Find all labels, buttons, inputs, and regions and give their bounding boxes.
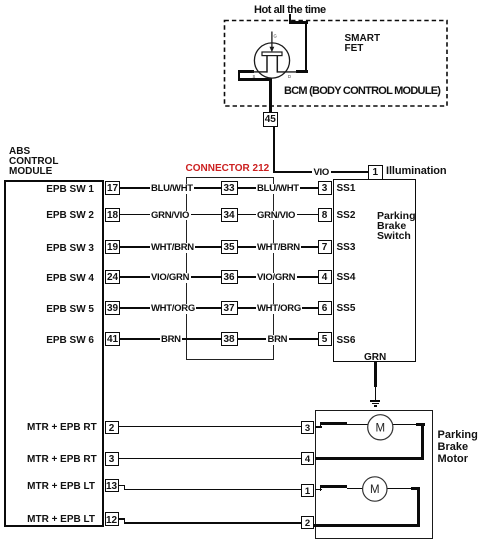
wire: hot feed drop from label	[289, 14, 292, 24]
left leg	[266, 56, 268, 73]
source terminal thin	[252, 71, 267, 73]
parking brake switch box	[333, 179, 416, 363]
label MTR + EPB RT	[27, 454, 95, 465]
pin 12 box (ABS)	[105, 512, 119, 526]
vertical thick right	[417, 487, 420, 527]
SMART FET label	[345, 34, 381, 56]
node SS3	[337, 242, 356, 253]
label MTR + EPB RT	[27, 422, 95, 433]
node SS6	[337, 335, 356, 346]
node SS2	[337, 210, 356, 221]
node Illumination	[386, 165, 447, 177]
wire EPB SW5 right	[238, 307, 318, 309]
wire label BLU/WHT right	[256, 184, 301, 194]
pin 45 box	[263, 112, 278, 127]
wire: source wrap horizontal under FET	[238, 78, 273, 81]
connector 212 label	[186, 163, 270, 174]
pin 34 box	[221, 208, 238, 222]
svg-text:G: G	[274, 34, 277, 39]
pin 33 box	[221, 181, 238, 195]
pin 3 box (ABS)	[105, 452, 119, 466]
BCM label	[284, 85, 440, 97]
ABS control module box	[4, 180, 104, 528]
parking brake motor label	[438, 429, 478, 465]
wire EPB SW2 left	[120, 214, 221, 216]
wire from motor 1	[393, 424, 416, 425]
wire label BLU/WHT left	[150, 184, 195, 194]
pin 19 box	[105, 240, 120, 254]
wire EPB SW2 right	[238, 214, 318, 216]
pin 38 box	[221, 332, 238, 346]
svg-text:D: D	[288, 74, 291, 79]
pin 2 box (motor)	[301, 516, 314, 529]
node SS4	[337, 272, 356, 283]
pin 35 box	[221, 240, 238, 254]
pin 13 box (ABS)	[105, 479, 119, 493]
node GRN	[364, 352, 386, 363]
wire: illumination horizontal right of VIO	[328, 171, 368, 174]
motor internal wiring bottom	[315, 489, 322, 491]
ground wire thin	[375, 387, 376, 400]
pin 7 box (SS3)	[318, 240, 332, 254]
pin 39 box	[105, 301, 120, 315]
pin 5 box (SS6)	[318, 332, 332, 346]
wire EPB SW4 right	[238, 276, 318, 278]
pin 6 box (SS5)	[318, 301, 332, 315]
pin 41 box	[105, 332, 120, 346]
gate bar	[262, 52, 282, 56]
wire label WHT/BRN right	[256, 243, 302, 253]
motor M1	[360, 408, 405, 448]
wire label VIO/GRN left	[150, 273, 191, 283]
pin 1 box (motor)	[301, 484, 314, 497]
node SS5	[337, 303, 356, 314]
thick segment right	[416, 423, 425, 426]
row 4: EPB SW 4	[40, 273, 94, 284]
vertical thick right	[421, 423, 424, 460]
wire label WHT/ORG right	[256, 304, 303, 314]
row 3: EPB SW 3	[40, 243, 94, 254]
pin 37 box	[221, 301, 238, 315]
node: Hot all the time	[254, 4, 326, 16]
gate arrowhead	[270, 47, 275, 52]
wire MTR+EPB RT row 1	[119, 426, 302, 428]
pin 8 box (SS2)	[318, 208, 332, 222]
pin 36 box	[221, 270, 238, 284]
wire EPB SW4 left	[120, 276, 221, 278]
wire label WHT/ORG left	[150, 304, 197, 314]
node SS1	[337, 183, 356, 194]
FET body circle	[254, 43, 289, 78]
row 5: EPB SW 5	[40, 304, 94, 315]
pin 2 box (ABS)	[105, 421, 119, 435]
pin 4 box (motor)	[301, 452, 314, 465]
wire EPB SW3 right	[238, 246, 318, 248]
wire: illumination horizontal left of VIO	[273, 171, 314, 174]
wire EPB SW6 left	[120, 338, 221, 340]
ABS control module label	[9, 147, 58, 178]
pin 1 box	[368, 165, 383, 180]
wire MTR+EPB RT row 2	[119, 458, 302, 460]
wire: pin 45 to illumination corner	[273, 126, 276, 173]
ground wire from switch	[374, 362, 377, 387]
pin 4 box (SS4)	[318, 270, 332, 284]
parking brake motor box	[315, 410, 433, 539]
wire MTR+EPB LT row 4 with jog	[119, 518, 126, 520]
motor internal wiring top: thick segment left	[315, 426, 322, 428]
row 2: EPB SW 2	[40, 210, 94, 221]
wire to motor 1	[347, 424, 368, 425]
wire: stem down to pin 45	[269, 78, 272, 112]
parking brake switch label	[377, 211, 416, 242]
label MTR + EPB LT	[27, 481, 95, 492]
row 1: EPB SW 1	[40, 184, 94, 195]
bottom thick return to pin 4	[315, 457, 424, 460]
thick segment right	[411, 487, 420, 490]
label MTR + EPB LT	[27, 514, 95, 525]
wire EPB SW3 left	[120, 246, 221, 248]
wire from motor 2	[387, 488, 412, 489]
wire MTR+EPB LT row 3 with jog	[119, 485, 126, 487]
right leg	[276, 56, 278, 73]
wire label GRN/VIO right	[256, 211, 297, 221]
wire: drain horizontal thick	[296, 70, 308, 73]
wire EPB SW1 right	[238, 187, 318, 189]
pin 24 box	[105, 270, 120, 284]
gate lead	[271, 32, 273, 48]
wire label GRN/VIO left	[150, 211, 191, 221]
motor M2	[355, 470, 400, 510]
wire: source wrap vertical	[238, 70, 241, 80]
pin 3 box (motor)	[301, 421, 314, 434]
svg-text:S: S	[253, 74, 256, 79]
node VIO	[312, 168, 331, 178]
wire: drain vertical feed	[305, 21, 308, 73]
wire label BRN left	[160, 335, 183, 345]
pin 3 box (SS1)	[318, 181, 332, 195]
wire to motor 2	[347, 488, 363, 489]
wire: source horizontal thick	[238, 70, 254, 73]
drain terminal thin	[277, 71, 297, 73]
svg-text:M: M	[376, 423, 386, 435]
wire EPB SW5 left	[120, 307, 221, 309]
svg-text:M: M	[370, 484, 380, 496]
pin 17 box	[105, 181, 120, 195]
wire EPB SW1 left	[120, 187, 221, 189]
wire: hot feed horizontal	[289, 21, 308, 24]
bottom thick return to pin 2	[314, 524, 420, 527]
pin 18 box	[105, 208, 120, 222]
transistor SMART FET	[240, 25, 310, 85]
row 6: EPB SW 6	[40, 335, 94, 346]
wire label WHT/BRN left	[150, 243, 196, 253]
ground symbol	[370, 400, 380, 401]
wire EPB SW6 right	[238, 338, 318, 340]
connector 212 box	[186, 177, 274, 360]
wire label BRN right	[266, 335, 289, 345]
wire label VIO/GRN right	[256, 273, 297, 283]
